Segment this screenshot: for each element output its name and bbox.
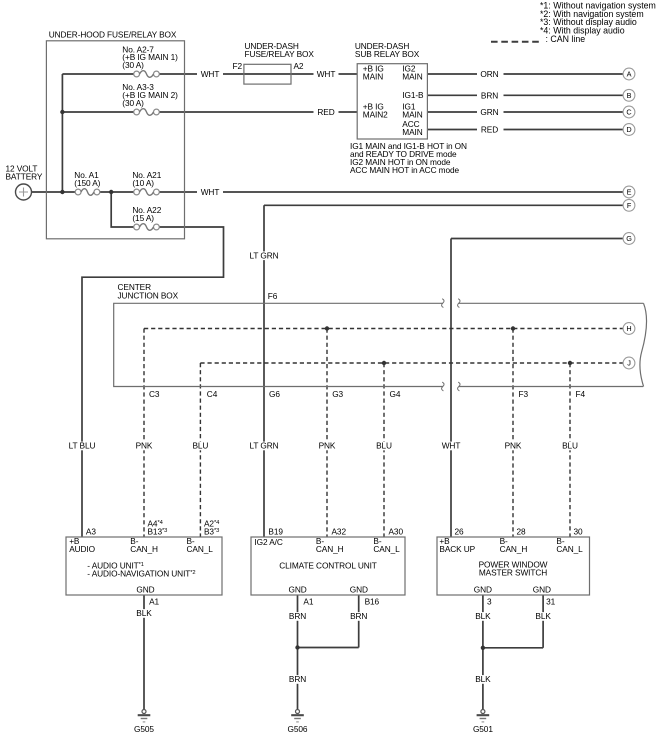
svg-text:MAIN2: MAIN2 xyxy=(363,110,388,120)
svg-text:G4: G4 xyxy=(390,389,401,399)
svg-text:F6: F6 xyxy=(268,291,278,301)
svg-text:PNK: PNK xyxy=(505,441,522,451)
svg-text:F: F xyxy=(627,201,632,210)
svg-text:GRN: GRN xyxy=(480,107,498,117)
svg-text:G3: G3 xyxy=(332,389,343,399)
svg-text:B16: B16 xyxy=(365,597,380,607)
svg-text:J: J xyxy=(627,359,631,368)
svg-text:30: 30 xyxy=(574,527,584,537)
svg-text:WHT: WHT xyxy=(317,69,336,79)
svg-text:A32: A32 xyxy=(332,527,347,537)
svg-text:G506: G506 xyxy=(288,724,308,734)
svg-text:CAN_H: CAN_H xyxy=(316,544,344,554)
svg-text:F2: F2 xyxy=(233,61,243,71)
svg-text:A1: A1 xyxy=(149,597,159,607)
svg-text:ACC MAIN HOT in ACC mode: ACC MAIN HOT in ACC mode xyxy=(350,165,460,175)
svg-text:MASTER SWITCH: MASTER SWITCH xyxy=(479,568,547,578)
svg-text:IG1-B: IG1-B xyxy=(402,90,424,100)
svg-text:A1: A1 xyxy=(303,597,313,607)
svg-text:(10 A): (10 A) xyxy=(132,178,154,188)
svg-text:MAIN: MAIN xyxy=(402,110,422,120)
svg-text:B: B xyxy=(627,91,632,100)
svg-text:3: 3 xyxy=(487,597,492,607)
svg-text:PNK: PNK xyxy=(136,441,153,451)
svg-text:G501: G501 xyxy=(473,724,493,734)
svg-text:GND: GND xyxy=(474,584,492,594)
svg-text:BATTERY: BATTERY xyxy=(6,172,43,182)
svg-text:E: E xyxy=(627,188,632,197)
svg-text:CAN_H: CAN_H xyxy=(130,544,158,554)
svg-text:GND: GND xyxy=(350,584,368,594)
svg-text:PNK: PNK xyxy=(319,441,336,451)
svg-text:(150 A): (150 A) xyxy=(74,178,100,188)
svg-text:28: 28 xyxy=(517,527,527,537)
svg-text:BRN: BRN xyxy=(481,91,498,101)
svg-text:26: 26 xyxy=(455,527,465,537)
svg-text:(30 A): (30 A) xyxy=(122,98,144,108)
svg-text:BLK: BLK xyxy=(136,608,152,618)
svg-text:CAN_H: CAN_H xyxy=(500,544,528,554)
svg-text:LT GRN: LT GRN xyxy=(249,441,278,451)
svg-text:BLK: BLK xyxy=(475,674,491,684)
svg-text:BLK: BLK xyxy=(535,611,551,621)
svg-text:CAN_L: CAN_L xyxy=(556,544,583,554)
svg-text:F4: F4 xyxy=(576,389,586,399)
svg-text:: CAN line: : CAN line xyxy=(546,34,586,44)
svg-text:A3: A3 xyxy=(86,527,96,537)
svg-text:A2: A2 xyxy=(294,61,304,71)
svg-text:(30 A): (30 A) xyxy=(122,60,144,70)
svg-text:CLIMATE CONTROL UNIT: CLIMATE CONTROL UNIT xyxy=(279,561,377,571)
svg-text:AUDIO: AUDIO xyxy=(69,544,95,554)
svg-text:UNDER-HOOD FUSE/RELAY BOX: UNDER-HOOD FUSE/RELAY BOX xyxy=(49,30,177,40)
svg-text:D: D xyxy=(626,125,631,134)
svg-text:C: C xyxy=(626,108,631,117)
svg-text:ORN: ORN xyxy=(480,69,498,79)
svg-text:FUSE/RELAY BOX: FUSE/RELAY BOX xyxy=(245,49,315,59)
svg-text:BLU: BLU xyxy=(192,441,208,451)
svg-text:C3: C3 xyxy=(149,389,160,399)
svg-text:CAN_L: CAN_L xyxy=(373,544,400,554)
svg-text:BACK UP: BACK UP xyxy=(439,544,475,554)
svg-text:A: A xyxy=(627,70,632,79)
svg-text:B19: B19 xyxy=(268,527,283,537)
svg-text:G505: G505 xyxy=(134,724,154,734)
svg-text:31: 31 xyxy=(546,597,556,607)
svg-text:BLU: BLU xyxy=(376,441,392,451)
svg-text:LT BLU: LT BLU xyxy=(69,441,96,451)
svg-text:WHT: WHT xyxy=(201,187,220,197)
svg-text:BRN: BRN xyxy=(289,611,306,621)
svg-text:C4: C4 xyxy=(207,389,218,399)
svg-text:JUNCTION BOX: JUNCTION BOX xyxy=(118,290,179,300)
svg-text:GND: GND xyxy=(289,584,307,594)
svg-text:BRN: BRN xyxy=(350,611,367,621)
svg-text:- AUDIO-NAVIGATION UNIT*2: - AUDIO-NAVIGATION UNIT*2 xyxy=(87,568,195,578)
svg-text:LT GRN: LT GRN xyxy=(249,250,278,260)
svg-text:H: H xyxy=(626,324,631,333)
svg-text:BRN: BRN xyxy=(289,674,306,684)
svg-text:RED: RED xyxy=(317,107,334,117)
svg-text:GND: GND xyxy=(136,584,154,594)
svg-text:A30: A30 xyxy=(389,527,404,537)
svg-text:BLU: BLU xyxy=(562,441,578,451)
svg-text:RED: RED xyxy=(481,125,498,135)
svg-text:BLK: BLK xyxy=(475,611,491,621)
svg-text:G: G xyxy=(626,234,632,243)
svg-text:WHT: WHT xyxy=(442,441,461,451)
svg-text:(15 A): (15 A) xyxy=(132,213,154,223)
svg-text:G6: G6 xyxy=(269,389,280,399)
svg-text:MAIN: MAIN xyxy=(363,72,383,82)
svg-text:IG2 A/C: IG2 A/C xyxy=(254,537,282,547)
svg-text:MAIN: MAIN xyxy=(402,127,422,137)
svg-text:CAN_L: CAN_L xyxy=(187,544,214,554)
svg-text:GND: GND xyxy=(533,584,551,594)
svg-text:F3: F3 xyxy=(519,389,529,399)
svg-text:WHT: WHT xyxy=(201,69,220,79)
svg-text:MAIN: MAIN xyxy=(402,72,422,82)
svg-text:SUB RELAY BOX: SUB RELAY BOX xyxy=(355,49,420,59)
